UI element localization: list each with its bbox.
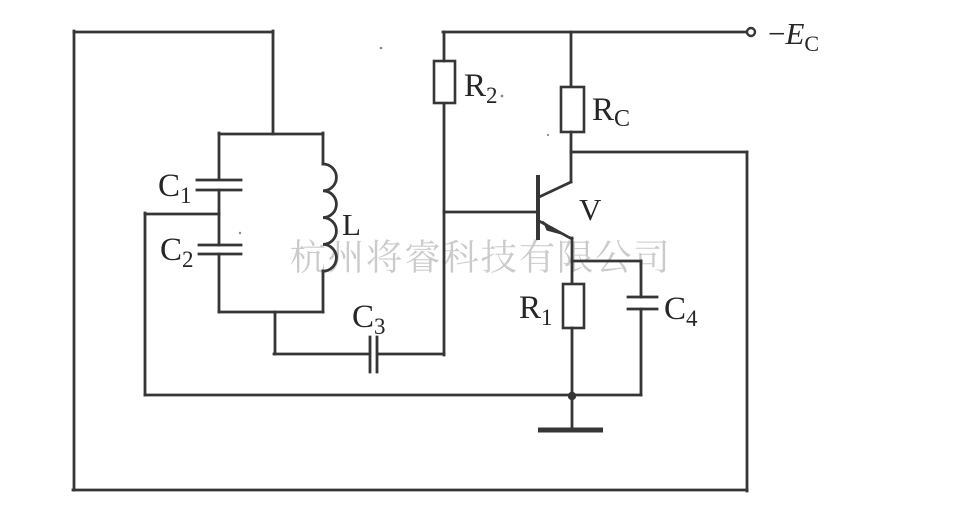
wire top supply rail — [443, 31, 747, 34]
wire bottom return to ground node — [145, 394, 641, 397]
watermark 杭州将睿科技有限公司 — [291, 239, 667, 273]
wire base — [444, 211, 537, 214]
label -EC — [768, 16, 819, 56]
label C3 — [352, 299, 386, 339]
wire base riser vertical — [443, 103, 446, 355]
wire R1 bottom lead — [571, 328, 574, 395]
svg-text:L: L — [342, 207, 361, 242]
wire top-left horizontal — [74, 31, 273, 34]
wire left feedback vertical (outer left side) — [73, 31, 76, 490]
wire emitter tap to C4 — [572, 260, 641, 263]
wire R2 top lead — [443, 32, 446, 61]
svg-text:V: V — [579, 192, 602, 227]
capacitor C3 — [370, 337, 377, 372]
terminal -EC — [747, 28, 755, 36]
resistor R2 — [434, 61, 455, 103]
wire tank top — [219, 133, 323, 136]
label V — [579, 192, 602, 227]
svg-text:R2: R2 — [464, 68, 498, 108]
resistor R1 — [563, 284, 584, 328]
label C4 — [664, 291, 698, 331]
wire RC top lead — [570, 32, 573, 87]
wire outer bottom — [73, 489, 747, 492]
resistor RC — [561, 87, 584, 132]
wire C4 top lead — [640, 261, 643, 297]
svg-text:C1: C1 — [158, 168, 192, 208]
wire C3 drop from tank bottom — [274, 312, 277, 354]
label R1 — [519, 290, 553, 330]
wire collector vertical — [570, 132, 573, 182]
wire L top lead — [322, 133, 325, 164]
capacitor C2 — [199, 245, 241, 254]
svg-text:C2: C2 — [160, 232, 194, 272]
label RC — [592, 92, 630, 132]
wire C1-C2 link — [218, 190, 221, 245]
wire emitter vertical — [571, 238, 574, 284]
wire collector rail to right side — [571, 151, 747, 154]
svg-text:R1: R1 — [519, 290, 553, 330]
label C2 — [160, 232, 194, 272]
node emitter-return junction — [568, 392, 576, 400]
wire tank bottom — [219, 311, 323, 314]
svg-text:C4: C4 — [664, 291, 698, 331]
ground — [538, 395, 603, 430]
wire L bottom lead — [322, 271, 325, 312]
label L — [342, 207, 361, 242]
wire C1 top lead — [218, 133, 221, 179]
capacitor C4 — [628, 297, 657, 309]
wire right side vertical — [746, 152, 749, 491]
transistor V — [538, 175, 572, 240]
inductor L — [323, 164, 336, 271]
wire C2 bottom lead — [218, 254, 221, 312]
capacitor C1 — [197, 180, 241, 190]
wire C3 left lead — [274, 353, 368, 356]
svg-text:−EC: −EC — [768, 16, 819, 56]
label C1 — [158, 168, 192, 208]
svg-text:RC: RC — [592, 92, 630, 132]
svg-text:C3: C3 — [352, 299, 386, 339]
wire C4 bottom lead — [640, 309, 643, 395]
label R2 — [464, 68, 498, 108]
wire left tap vertical — [144, 213, 147, 395]
wire top-left corner drop to tank — [272, 31, 275, 134]
wire node tap between C1 C2 — [145, 213, 219, 216]
wire C3 right lead — [378, 353, 444, 356]
speck noise — [239, 47, 549, 235]
